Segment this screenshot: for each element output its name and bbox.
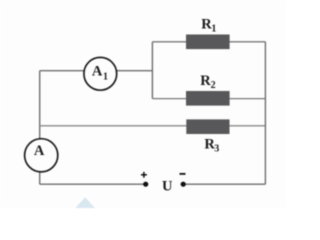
minus sign <box>180 173 186 175</box>
battery - terminal dot <box>181 182 186 187</box>
svg-text:1: 1 <box>103 71 108 82</box>
ammeter A <box>25 139 58 172</box>
svg-text:1: 1 <box>211 24 216 35</box>
svg-text:3: 3 <box>214 144 219 155</box>
wire: right vertical <box>264 42 266 184</box>
svg-text:2: 2 <box>211 80 216 91</box>
ammeter A1 <box>84 57 117 90</box>
wire: left vertical (top corner to bottom wire) <box>39 71 41 185</box>
resistor R2 <box>186 91 230 106</box>
plus sign <box>141 174 147 176</box>
watermark triangle <box>76 197 95 208</box>
svg-text:A: A <box>34 143 45 159</box>
svg-text:A: A <box>92 63 103 79</box>
battery + terminal dot <box>143 182 148 187</box>
wire: R2 branch <box>152 98 265 100</box>
wire: junction bar between R1 and R2 branches <box>151 42 153 99</box>
wire: A1 branch horizontal (left vertical to junction bar) <box>40 70 153 72</box>
wire: R3 branch <box>40 125 266 127</box>
wire: R1 branch <box>152 41 265 43</box>
svg-text:U: U <box>162 178 173 194</box>
wire: bottom right segment from - terminal <box>183 183 265 185</box>
resistor R1 <box>186 35 230 50</box>
resistor R3 <box>186 119 229 134</box>
wire: bottom left segment to + terminal <box>40 183 146 185</box>
